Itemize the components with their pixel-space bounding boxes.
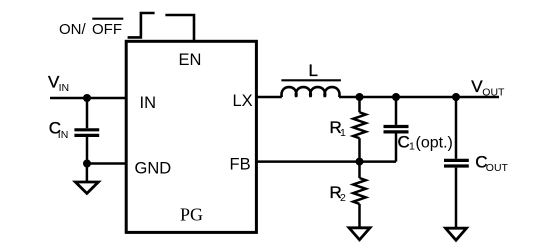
svg-text:OUT: OUT	[486, 162, 509, 174]
svg-text:IN: IN	[140, 94, 157, 112]
svg-text:ON/: ON/	[59, 21, 87, 38]
inductor L	[281, 87, 339, 97]
ground symbol under COUT	[446, 228, 467, 240]
node dot R1/R2/FB	[356, 158, 364, 166]
capacitor CIN	[74, 98, 99, 164]
ground symbol under R2	[349, 228, 370, 240]
wire GND pin	[87, 162, 126, 165]
svg-text:EN: EN	[179, 51, 202, 69]
wire VIN to IN pin	[50, 97, 126, 100]
svg-text:1: 1	[409, 141, 415, 153]
svg-text:IN: IN	[59, 82, 70, 94]
node dot C1 top	[392, 93, 400, 101]
svg-text:(opt.): (opt.)	[416, 134, 453, 151]
svg-text:OFF: OFF	[92, 21, 122, 38]
svg-text:IN: IN	[58, 129, 69, 141]
node dot LX/R1	[356, 93, 364, 101]
wire EN (horizontal + vertical into box top)	[165, 15, 194, 41]
wire FB to R1/R2 junction and C1 bottom	[256, 160, 396, 163]
svg-text:1: 1	[340, 127, 346, 139]
svg-text:LX: LX	[233, 92, 253, 110]
pulse waveform symbol	[128, 13, 155, 37]
line under L label	[281, 79, 341, 81]
node dot VIN/CIN	[83, 94, 91, 102]
ground symbol under CIN	[75, 182, 98, 193]
svg-text:C: C	[398, 132, 410, 151]
svg-text:PG: PG	[180, 205, 203, 225]
wire LX to inductor	[256, 96, 281, 99]
capacitor COUT	[444, 97, 469, 228]
resistor R1	[353, 97, 366, 162]
IC U1 body	[126, 41, 256, 232]
svg-text:L: L	[309, 61, 318, 80]
capacitor C1	[384, 97, 409, 162]
svg-text:FB: FB	[230, 156, 251, 174]
node dot COUT top	[452, 93, 460, 101]
wire to ground under CIN	[86, 164, 89, 183]
wire inductor to VOUT	[339, 96, 499, 99]
overline over OFF	[92, 18, 123, 20]
svg-text:2: 2	[340, 192, 346, 204]
svg-text:OUT: OUT	[482, 87, 505, 99]
svg-text:GND: GND	[135, 159, 172, 177]
node dot CIN/GND	[83, 160, 91, 168]
resistor R2	[353, 162, 366, 228]
